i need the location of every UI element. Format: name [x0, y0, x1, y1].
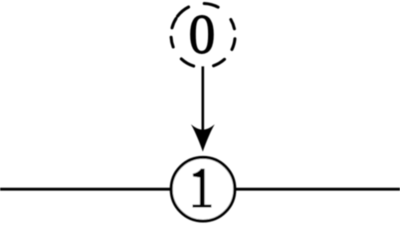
arrowhead: [191, 124, 215, 151]
node 1 (solid circle): [171, 157, 235, 221]
wire: arrow shaft from node 0 to node 1: [202, 66, 205, 140]
svg-text:0: 0: [188, 3, 215, 65]
node 0 (dashed circle): [171, 4, 235, 67]
label 1: [193, 169, 212, 208]
wire: horizontal line through node 1: [0, 188, 400, 191]
